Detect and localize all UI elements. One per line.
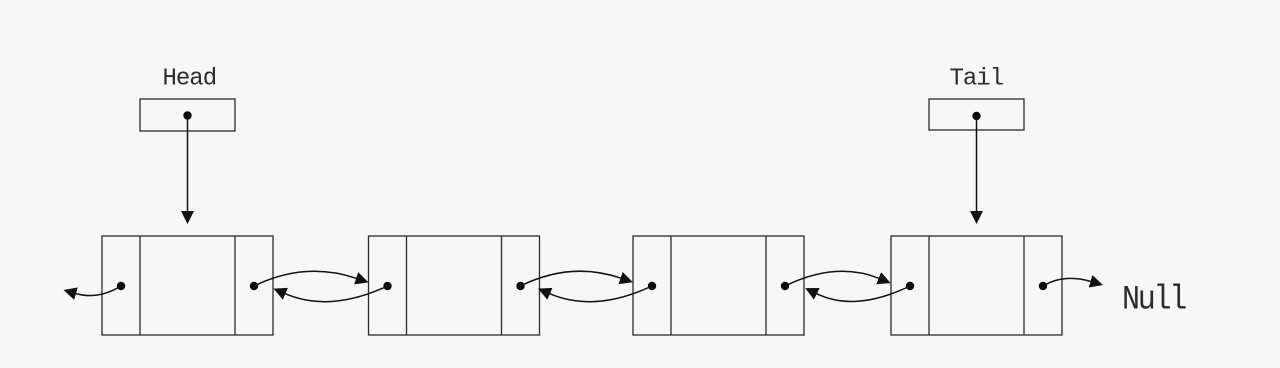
node 2 next dot <box>516 282 524 290</box>
node 1 prev dot <box>117 282 125 290</box>
node 4 next null arrow <box>1043 278 1091 286</box>
node 4 prev dot <box>906 282 914 290</box>
Tail arrow to node 4 <box>976 116 978 212</box>
svg-text:Tail: Tail <box>950 66 1004 93</box>
node 3 next dot <box>781 282 789 290</box>
node 3 box <box>633 236 804 335</box>
prev arrow node3 to node2 <box>550 286 653 302</box>
node 2 box <box>369 236 540 335</box>
node 1 box <box>102 236 273 335</box>
prev arrow node2 to node1 <box>285 286 388 302</box>
node 4 box <box>891 236 1062 335</box>
next arrow node1 to node2 <box>254 271 357 286</box>
svg-text:Head: Head <box>163 66 217 93</box>
Tail pointer box <box>929 99 1024 130</box>
svg-text:Null: Null <box>1122 280 1186 319</box>
Head arrow to node 1 <box>187 116 189 212</box>
node 3 prev dot <box>648 282 656 290</box>
Tail pointer dot <box>972 112 980 120</box>
prev arrow node4 to node3 <box>816 286 910 301</box>
node 1 prev null arrow <box>76 286 122 296</box>
next arrow node2 to node3 <box>521 271 622 286</box>
node 1 next dot <box>250 282 258 290</box>
Head pointer box <box>140 99 235 131</box>
node 4 next dot <box>1039 282 1047 290</box>
Head pointer dot <box>183 111 191 119</box>
node 2 prev dot <box>383 282 391 290</box>
next arrow node3 to node4 <box>785 271 879 286</box>
